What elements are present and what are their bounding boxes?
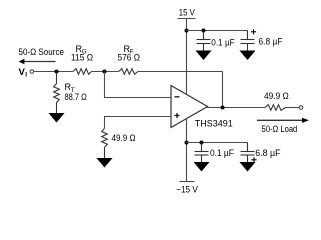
junction node B (inverting input node) <box>103 70 107 74</box>
junction node A (Vi / RT / Rg) <box>55 70 59 74</box>
wire Rg to node B <box>92 71 119 73</box>
svg-text:6.8 µF: 6.8 µF <box>255 148 281 158</box>
svg-text:50-Ω Source: 50-Ω Source <box>19 47 65 57</box>
ground (below 49.9 Ω) <box>97 158 113 168</box>
op-amp U1 THS3491 <box>171 86 208 128</box>
resistor RF (horizontal) <box>119 69 138 75</box>
svg-text:576 Ω: 576 Ω <box>118 53 141 63</box>
wire +15V to op-amp V+ pin <box>186 19 188 95</box>
load direction arrow <box>257 118 309 123</box>
ground (below C1) <box>196 51 212 61</box>
wire node B down to inverting input <box>105 72 172 98</box>
source direction arrow <box>19 59 56 64</box>
junction −15V rail at op-amp pin <box>185 141 189 145</box>
svg-text:15 V: 15 V <box>179 7 195 17</box>
wire Rf to feedback corner <box>138 71 223 73</box>
svg-text:−15 V: −15 V <box>176 185 198 195</box>
junction 0.1uF top <box>202 29 206 33</box>
wire op-amp output <box>206 107 266 109</box>
ground (below C3) <box>194 162 210 172</box>
capacitor C4 6.8 µF (bottom, polarized) <box>241 143 255 163</box>
svg-text:0.1 µF: 0.1 µF <box>210 148 234 158</box>
junction 0.1uF bottom <box>200 141 204 145</box>
polarity + (top 6.8 µF) <box>251 29 256 34</box>
svg-text:6.8 µF: 6.8 µF <box>259 37 283 47</box>
svg-text:50-Ω Load: 50-Ω Load <box>262 124 298 134</box>
junction +15V rail <box>185 29 189 33</box>
svg-text:0.1 µF: 0.1 µF <box>211 38 235 48</box>
wire +15V decoupling rail <box>187 30 248 32</box>
capacitor C2 6.8 µF (top, polarized) <box>241 31 255 51</box>
wire feedback vertical to output node <box>222 72 224 108</box>
resistor RG (horizontal) <box>73 69 92 75</box>
polarity + (bottom 6.8 µF) <box>251 157 256 162</box>
junction output node <box>221 106 225 110</box>
resistor 49.9 Ω (output, horizontal) <box>265 105 285 111</box>
svg-text:49.9 Ω: 49.9 Ω <box>264 91 289 101</box>
svg-text:THS3491: THS3491 <box>195 119 233 130</box>
wire resistor to output terminal <box>285 107 299 109</box>
ground (below C2) <box>240 51 256 61</box>
resistor RT (vertical) <box>54 72 60 114</box>
capacitor C1 0.1 µF (top) <box>197 31 211 51</box>
svg-text:88.7 Ω: 88.7 Ω <box>65 92 88 102</box>
ground (below C4) <box>240 162 256 172</box>
svg-text:I: I <box>25 72 27 79</box>
wire −15V decoupling rail <box>187 142 248 144</box>
svg-text:115 Ω: 115 Ω <box>71 53 93 63</box>
svg-text:49.9 Ω: 49.9 Ω <box>112 133 136 143</box>
capacitor C3 0.1 µF (bottom) <box>195 143 209 163</box>
power −15 V terminal <box>186 118 188 181</box>
resistor 49.9 Ω (vertical, to ground) <box>102 128 108 158</box>
wire non-inverting input to 49.9 Ω branch <box>105 117 172 129</box>
wire Vi terminal to node A <box>34 71 73 73</box>
output terminal <box>299 106 303 110</box>
ground (below RT) <box>49 113 65 123</box>
